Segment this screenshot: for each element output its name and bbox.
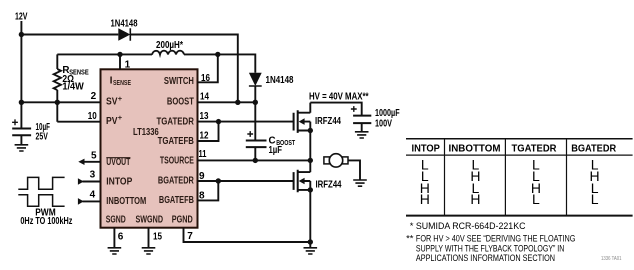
svg-text:INTOP: INTOP xyxy=(106,175,132,187)
svg-text:1N4148: 1N4148 xyxy=(111,19,138,30)
svg-text:1: 1 xyxy=(125,60,131,71)
svg-text:INTOP: INTOP xyxy=(412,143,440,155)
svg-text:BGATEDR: BGATEDR xyxy=(158,174,194,186)
svg-text:4: 4 xyxy=(90,190,96,201)
svg-text:SV: SV xyxy=(106,96,118,108)
svg-text:5: 5 xyxy=(91,150,97,161)
svg-text:16: 16 xyxy=(201,73,210,84)
svg-text:25V: 25V xyxy=(36,132,49,143)
svg-text:TGATEFB: TGATEFB xyxy=(158,135,195,147)
svg-text:+: + xyxy=(118,113,123,122)
svg-text:2: 2 xyxy=(91,91,97,102)
svg-text:INBOTTOM: INBOTTOM xyxy=(449,143,501,155)
svg-text:+: + xyxy=(118,94,123,103)
svg-text:H: H xyxy=(470,191,480,207)
svg-text:TGATEDR: TGATEDR xyxy=(512,143,557,155)
svg-text:SWGND: SWGND xyxy=(136,214,164,226)
svg-text:TSOURCE: TSOURCE xyxy=(160,154,194,166)
svg-text:IRFZ44: IRFZ44 xyxy=(315,116,341,127)
svg-text:8: 8 xyxy=(199,191,205,202)
svg-text:**: ** xyxy=(406,234,414,245)
svg-text:15: 15 xyxy=(153,232,162,243)
svg-text:PV: PV xyxy=(106,115,118,127)
svg-text:*: * xyxy=(410,221,414,232)
svg-text:9: 9 xyxy=(199,171,205,182)
svg-text:1N4148: 1N4148 xyxy=(266,75,294,86)
svg-text:SENSE: SENSE xyxy=(113,78,131,87)
svg-text:IRFZ44: IRFZ44 xyxy=(316,179,342,190)
svg-text:TGATEDR: TGATEDR xyxy=(157,115,195,127)
svg-text:14: 14 xyxy=(200,92,209,103)
svg-text:L: L xyxy=(591,191,599,207)
svg-text:UVOUT: UVOUT xyxy=(106,156,130,168)
svg-text:INBOTTOM: INBOTTOM xyxy=(106,195,146,207)
svg-text:3: 3 xyxy=(90,169,96,180)
svg-text:12V: 12V xyxy=(15,11,28,23)
svg-text:LT1336: LT1336 xyxy=(133,126,159,138)
svg-text:PGND: PGND xyxy=(172,214,193,226)
svg-text:7: 7 xyxy=(187,231,193,242)
svg-text:6: 6 xyxy=(118,232,124,243)
svg-text:APPLICATIONS INFORMATION SECTI: APPLICATIONS INFORMATION SECTION xyxy=(416,253,555,264)
svg-text:11: 11 xyxy=(199,149,207,160)
svg-text:BGATEDR: BGATEDR xyxy=(571,143,616,155)
svg-text:L: L xyxy=(532,191,540,207)
svg-text:1336 TA01: 1336 TA01 xyxy=(601,256,622,262)
svg-text:1µF: 1µF xyxy=(269,145,283,156)
svg-text:13: 13 xyxy=(200,111,209,122)
svg-text:0Hz TO 100kHz: 0Hz TO 100kHz xyxy=(20,216,72,227)
svg-text:SWITCH: SWITCH xyxy=(164,75,194,87)
svg-text:SGND: SGND xyxy=(106,214,126,226)
svg-text:12: 12 xyxy=(200,131,209,142)
svg-text:10: 10 xyxy=(88,111,97,122)
svg-text:200µH*: 200µH* xyxy=(156,40,183,51)
svg-text:1/4W: 1/4W xyxy=(62,81,84,92)
svg-text:BGATEFB: BGATEFB xyxy=(159,194,194,206)
svg-text:100V: 100V xyxy=(375,118,392,129)
svg-text:BOOST: BOOST xyxy=(167,96,194,108)
svg-text:HV = 40V MAX**: HV = 40V MAX** xyxy=(309,91,369,102)
svg-text:SUMIDA RCR-664D-221KC: SUMIDA RCR-664D-221KC xyxy=(416,221,526,232)
svg-text:H: H xyxy=(420,191,430,207)
